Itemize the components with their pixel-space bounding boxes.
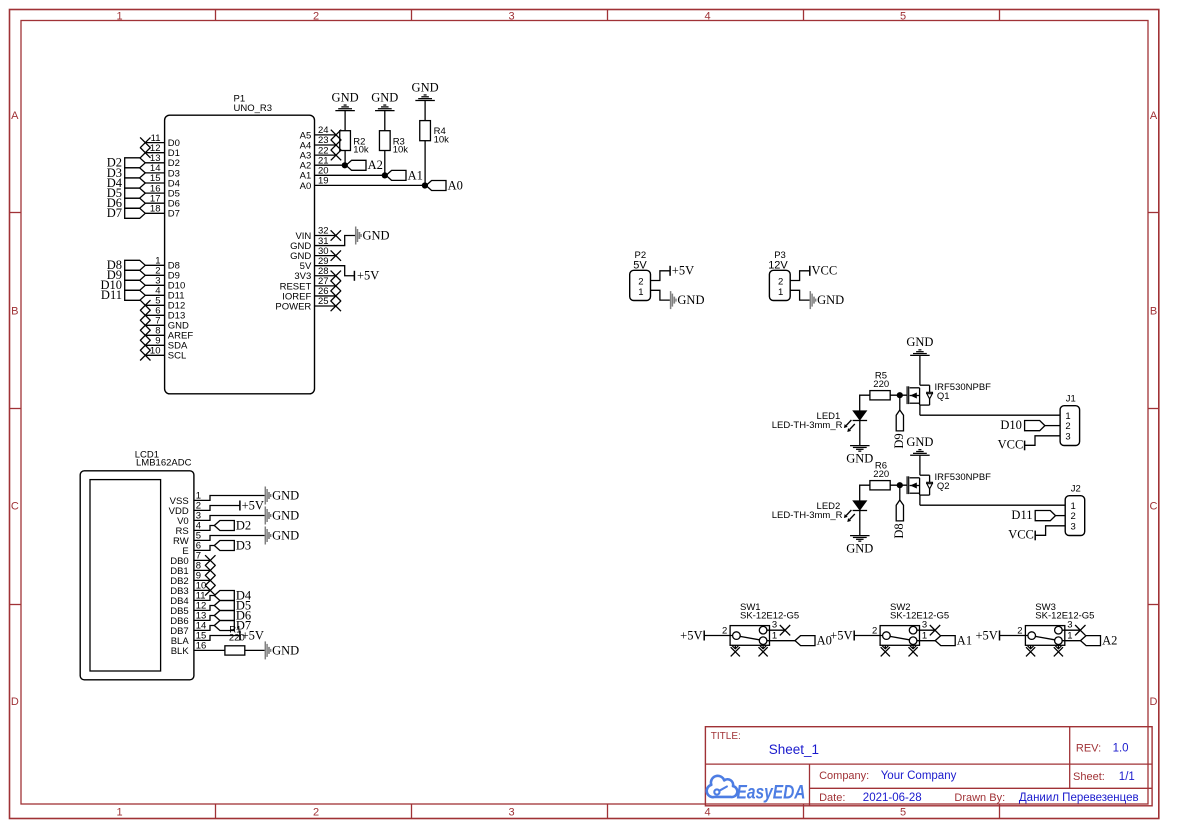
junction at A1 — [382, 172, 388, 178]
svg-text:LED-TH-3mm_R: LED-TH-3mm_R — [772, 420, 843, 431]
wire P3 pin2 — [790, 271, 810, 281]
ground GND at P3 pin1 — [810, 291, 844, 309]
svg-text:A0: A0 — [448, 178, 463, 192]
P1 pin 25 POWER — [275, 296, 341, 312]
svg-text:GND: GND — [363, 229, 390, 243]
wire LED2 to ground — [859, 511, 861, 536]
wire SW1 pin1 to flag A0 — [767, 640, 795, 642]
wire SW2 pin1 to flag A1 — [917, 640, 935, 642]
wire P2 pin1 — [651, 290, 670, 300]
svg-text:+5V: +5V — [357, 269, 379, 283]
LED LED2 LED-TH-3mm_R — [772, 501, 867, 522]
wire R4 bottom — [424, 141, 426, 186]
wire LCD1 pin4 RS to flag D2 — [194, 526, 214, 531]
svg-text:3: 3 — [772, 620, 777, 631]
P1 pin 15 D4 — [145, 173, 180, 189]
svg-text:GND: GND — [817, 293, 844, 307]
wire SW2 pin3 no connect — [917, 625, 940, 635]
wire flag D10 to J1 pin2 — [1045, 425, 1060, 427]
switch SW2 SK-12E12-G5 — [872, 602, 949, 645]
svg-text:VCC: VCC — [998, 438, 1024, 452]
svg-text:2: 2 — [313, 10, 319, 22]
svg-text:GND: GND — [677, 293, 704, 307]
P1 pin 20 A1 — [300, 166, 385, 182]
ground GND below LED1 — [846, 446, 873, 466]
power +5V at SW1 pin2 — [680, 628, 704, 642]
svg-text:D8: D8 — [892, 523, 906, 538]
svg-text:UNO_R3: UNO_R3 — [234, 103, 273, 114]
LCD1 pin 4 RS — [175, 521, 201, 537]
svg-text:220: 220 — [873, 469, 889, 480]
LCD1 pin 16 BLK — [171, 641, 207, 657]
wire LCD1 pin3 V0 to GND — [194, 516, 265, 521]
P1 pin 10 SCL — [140, 346, 186, 362]
wire LCD1 pin15 BLA to +5V — [194, 636, 240, 641]
svg-text:3: 3 — [922, 620, 927, 631]
LCD1 pin 13 DB6 — [170, 611, 206, 627]
svg-text:A: A — [11, 110, 19, 122]
wire +5V to SW1 pin2 — [704, 635, 732, 637]
svg-text:D7: D7 — [168, 209, 180, 220]
P1 pin 3 D10 — [145, 276, 185, 292]
svg-text:D: D — [1150, 696, 1158, 708]
wire R2 top to ground — [344, 111, 346, 131]
svg-text:REV:: REV: — [1076, 743, 1101, 755]
svg-text:1: 1 — [116, 807, 122, 819]
wire LCD1 pin16 BLK to R1 — [194, 649, 225, 651]
wire P1 pin31 to GND — [315, 236, 356, 246]
P1 pin 6 D13 — [140, 306, 185, 322]
resistor R1 220 labels — [229, 624, 245, 643]
net flag D4 — [107, 176, 146, 190]
svg-text:GND: GND — [371, 90, 398, 104]
ground GND above Q2 — [906, 435, 933, 455]
P1 pin 12 D1 — [140, 143, 180, 159]
svg-text:3: 3 — [508, 10, 514, 22]
net flag D9 — [892, 410, 906, 449]
wire LCD1 pin1 VSS to GND — [194, 496, 265, 501]
P1 pin 31 GND — [290, 236, 328, 252]
wire R6 to Q2 gate — [890, 484, 907, 486]
svg-text:Q1: Q1 — [937, 391, 950, 402]
LCD1 pin 11 DB4 — [170, 591, 205, 607]
svg-text:4: 4 — [704, 10, 710, 22]
svg-text:220: 220 — [873, 379, 889, 390]
power +5V at SW3 pin2 — [975, 628, 999, 642]
LCD LCD1 LMB162ADC body — [80, 449, 194, 680]
connector J2 — [1065, 483, 1085, 535]
LCD1 pin 10 DB3 — [170, 581, 206, 597]
wire LCD1 pin 12 to flag D5 — [194, 606, 214, 611]
net flag D8 — [892, 500, 906, 539]
net flag D3 — [107, 166, 146, 180]
ground GND at P1 pin31 — [356, 227, 390, 245]
svg-text:Company:: Company: — [819, 770, 869, 782]
wire P3 pin1 — [790, 290, 809, 300]
power VCC at J2 pin3 — [1008, 528, 1035, 542]
svg-text:+5V: +5V — [680, 628, 702, 642]
title block — [705, 727, 1152, 806]
svg-text:C: C — [11, 501, 19, 513]
connector J1 — [1060, 393, 1080, 445]
wire P2 pin2 — [651, 271, 671, 281]
svg-text:VCC: VCC — [812, 264, 838, 278]
P1 pin 28 3V3 — [294, 266, 341, 282]
power VCC at P3 pin2 — [810, 264, 837, 278]
svg-text:J2: J2 — [1071, 483, 1081, 494]
resistor R4 10k — [420, 121, 449, 146]
wire R2 bottom — [344, 151, 346, 166]
wire SW3 pin1 to flag A2 — [1062, 640, 1080, 642]
wire flag D11 to J2 pin2 — [1056, 515, 1066, 517]
svg-text:EasyEDA: EasyEDA — [737, 782, 806, 803]
P1 pin 2 D9 — [145, 266, 180, 282]
ground GND at LCD1 pin5 — [265, 527, 299, 545]
net flag A1 — [386, 168, 423, 182]
wire junction to flag D8 — [899, 485, 901, 500]
svg-text:LED-TH-3mm_R: LED-TH-3mm_R — [772, 510, 843, 521]
P1 pin 7 GND — [140, 316, 189, 332]
svg-text:+5V: +5V — [830, 628, 852, 642]
svg-text:3: 3 — [1067, 620, 1072, 631]
svg-text:D3: D3 — [236, 538, 251, 552]
switch SW3 SK-12E12-G5 — [1017, 602, 1094, 645]
P1 pin 17 D6 — [145, 193, 180, 209]
power +5V at P1 pin29 — [354, 269, 379, 283]
svg-text:10k: 10k — [393, 145, 409, 156]
svg-text:5: 5 — [900, 10, 906, 22]
P1 pin 16 D5 — [145, 183, 180, 199]
svg-text:SK-12E12-G5: SK-12E12-G5 — [1035, 611, 1094, 622]
svg-text:2: 2 — [313, 807, 319, 819]
P1 pin 24 A5 — [300, 125, 342, 141]
LCD1 pin 8 DB1 — [170, 561, 201, 577]
wire R4 top to ground — [424, 101, 426, 121]
svg-text:1: 1 — [772, 630, 777, 641]
svg-text:5: 5 — [900, 807, 906, 819]
wire LED1 to ground — [859, 421, 861, 446]
net flag D2 — [214, 518, 251, 532]
svg-text:1: 1 — [922, 630, 927, 641]
resistor R1 body — [225, 646, 245, 655]
SW2 mounting pins no connect — [881, 645, 918, 656]
svg-text:A1: A1 — [408, 168, 423, 182]
SW3 mounting pins no connect — [1026, 645, 1063, 656]
svg-text:1.0: 1.0 — [1113, 743, 1129, 755]
net flag A2 — [346, 158, 383, 172]
P1 pin 1 D8 — [145, 256, 180, 272]
svg-text:A2: A2 — [368, 158, 383, 172]
svg-text:GND: GND — [272, 529, 299, 543]
net flag D7 — [214, 618, 251, 632]
wire LCD1 pin 9 no connect — [194, 575, 216, 585]
svg-text:4: 4 — [704, 807, 710, 819]
EasyEDA logo — [707, 776, 806, 804]
net flag A2 — [1081, 634, 1118, 648]
wire LCD1 pin 11 to flag D4 — [194, 596, 214, 601]
ground GND above R2 — [332, 90, 359, 110]
wire R5 to Q1 gate — [890, 394, 907, 396]
svg-text:10k: 10k — [353, 145, 369, 156]
P1 pin 23 A4 — [300, 135, 342, 151]
svg-text:D: D — [11, 696, 19, 708]
ground GND at LCD1 pin3 — [265, 507, 299, 525]
P1 pin 29 5V — [300, 256, 329, 272]
wire GND to Q1 drain — [919, 355, 921, 385]
connector P1 UNO_R3 body — [165, 94, 315, 394]
svg-text:B: B — [11, 305, 18, 317]
net flag D5 — [107, 186, 146, 200]
power VCC at J1 pin3 — [998, 438, 1025, 452]
ground GND at P2 pin1 — [671, 291, 705, 309]
svg-text:3: 3 — [1065, 431, 1070, 442]
svg-text:GND: GND — [846, 542, 873, 556]
power +5V at P2 pin2 — [670, 264, 694, 278]
svg-text:A1: A1 — [957, 634, 972, 648]
net flag D3 — [214, 538, 251, 552]
LCD1 pin 1 VSS — [170, 491, 201, 507]
ground GND at R1 — [265, 641, 299, 659]
svg-text:C: C — [1150, 501, 1158, 513]
svg-text:D9: D9 — [892, 433, 906, 448]
svg-text:D11: D11 — [101, 288, 122, 302]
wire Q2 source to J2 pin1 — [920, 504, 1065, 506]
wire LCD1 pin5 RW to GND — [194, 536, 265, 541]
P1 pin 11 D0 — [140, 133, 180, 149]
svg-text:D11: D11 — [1011, 508, 1032, 522]
svg-text:18: 18 — [150, 204, 161, 215]
svg-text:SCL: SCL — [168, 351, 186, 362]
svg-text:1: 1 — [638, 287, 643, 298]
P1 pin 5 D12 — [140, 296, 185, 312]
P1 pin 9 SDA — [140, 336, 188, 352]
svg-text:GND: GND — [332, 90, 359, 104]
svg-text:5V: 5V — [633, 259, 647, 271]
svg-text:B: B — [1150, 305, 1157, 317]
net flag A0 — [426, 178, 463, 192]
wire R1 to GND — [245, 649, 265, 651]
connector P3 12V — [768, 250, 790, 300]
wire VCC to J1 pin3 — [1025, 436, 1061, 446]
svg-text:Q2: Q2 — [937, 481, 950, 492]
wire LCD1 pin 10 no connect — [194, 585, 216, 595]
svg-text:A: A — [1150, 110, 1158, 122]
net flag D4 — [214, 588, 252, 602]
LCD1 pin 3 V0 — [177, 511, 201, 527]
P1 pin 26 IOREF — [282, 286, 341, 302]
svg-text:GND: GND — [906, 435, 933, 449]
svg-text:1: 1 — [116, 10, 122, 22]
svg-text:Sheet_1: Sheet_1 — [769, 742, 819, 757]
P1 pin 21 A2 — [300, 155, 345, 171]
wire VCC to J2 pin3 — [1035, 526, 1065, 536]
wire LCD1 pin 14 to flag D7 — [194, 626, 214, 631]
LCD1 pin 15 BLA — [171, 631, 207, 647]
wire P1 pin29 to +5V — [315, 266, 355, 276]
net flag D9 — [107, 268, 146, 282]
svg-text:SK-12E12-G5: SK-12E12-G5 — [740, 611, 799, 622]
junction at Q2 gate — [897, 482, 903, 488]
svg-text:1: 1 — [1067, 630, 1072, 641]
P1 pin 22 A3 — [300, 145, 342, 161]
wire LCD1 pin 13 to flag D6 — [194, 616, 214, 621]
svg-text:+5V: +5V — [242, 628, 264, 642]
svg-text:12V: 12V — [768, 259, 788, 271]
svg-text:A2: A2 — [1102, 634, 1117, 648]
junction at A2 — [342, 162, 348, 168]
svg-text:GND: GND — [846, 452, 873, 466]
resistor R5 220 — [870, 371, 890, 400]
svg-text:Даниил Перевезенцев: Даниил Перевезенцев — [1019, 792, 1139, 804]
LCD1 pin 6 E — [182, 541, 201, 557]
ground GND above R4 — [412, 80, 439, 100]
svg-text:3: 3 — [1071, 521, 1076, 532]
svg-text:19: 19 — [318, 176, 329, 187]
wire R3 bottom — [384, 151, 386, 176]
P1 pin 19 A0 — [300, 176, 425, 192]
svg-text:Drawn By:: Drawn By: — [954, 792, 1005, 804]
svg-text:+5V: +5V — [672, 264, 694, 278]
wire +5V to SW2 pin2 — [854, 635, 882, 637]
LCD1 pin 7 DB0 — [170, 551, 201, 567]
net flag D10 — [100, 278, 145, 292]
power +5V at SW2 pin2 — [830, 628, 854, 642]
wire LCD1 pin 7 no connect — [194, 555, 216, 565]
P1 pin 4 D11 — [145, 286, 185, 302]
net flag A0 — [795, 634, 832, 648]
wire GND to Q2 drain — [919, 455, 921, 475]
net flag D8 — [107, 258, 146, 272]
svg-text:GND: GND — [272, 644, 299, 658]
ground GND at LCD1 pin1 — [265, 487, 299, 505]
LED LED1 LED-TH-3mm_R — [772, 411, 867, 432]
svg-text:LMB162ADC: LMB162ADC — [136, 458, 192, 469]
P1 pin 18 D7 — [145, 204, 180, 220]
svg-text:J1: J1 — [1066, 393, 1076, 404]
svg-text:GND: GND — [272, 509, 299, 523]
svg-text:Sheet:: Sheet: — [1073, 771, 1105, 783]
wire junction to flag D9 — [899, 395, 901, 410]
ground GND below LED2 — [846, 536, 873, 556]
P1 pin 13 D2 — [145, 153, 180, 169]
P1 pin 8 AREF — [140, 326, 193, 342]
svg-text:D7: D7 — [107, 206, 122, 220]
net flag D11 — [1011, 508, 1055, 522]
junction at Q1 gate — [897, 392, 903, 398]
svg-text:Your Company: Your Company — [881, 770, 957, 782]
P1 pin 30 GND — [290, 246, 341, 262]
net flag D6 — [214, 608, 251, 622]
SW1 mounting pins no connect — [731, 645, 768, 656]
switch SW1 SK-12E12-G5 — [722, 602, 799, 645]
svg-text:Date:: Date: — [819, 792, 845, 804]
connector P2 5V — [630, 250, 651, 300]
svg-text:POWER: POWER — [275, 301, 311, 312]
svg-text:10k: 10k — [434, 135, 450, 146]
wire +5V to SW3 pin2 — [1000, 635, 1028, 637]
resistor R6 220 — [870, 461, 890, 490]
svg-text:A0: A0 — [300, 181, 312, 192]
wire R6 to LED2 — [860, 485, 870, 501]
LCD1 pin 5 RW — [173, 531, 201, 547]
power +5V at LCD1 pin15 — [240, 628, 264, 642]
wire LCD1 pin2 VDD to +5V — [194, 506, 240, 511]
wire LCD1 pin 8 no connect — [194, 565, 216, 575]
power +5V at LCD1 pin2 — [240, 498, 264, 512]
ground GND above Q1 — [906, 335, 933, 355]
net flag A1 — [935, 634, 972, 648]
svg-text:GND: GND — [412, 80, 439, 94]
svg-text:VCC: VCC — [1008, 528, 1034, 542]
junction at A0 — [422, 182, 428, 188]
net flag D6 — [107, 196, 146, 210]
transistor Q1 IRF530NPBF — [907, 382, 991, 415]
transistor Q2 IRF530NPBF — [907, 472, 991, 505]
wire R3 top to ground — [384, 111, 386, 131]
svg-text:D2: D2 — [236, 518, 251, 532]
svg-text:3: 3 — [508, 807, 514, 819]
wire Q1 source to J1 pin1 — [920, 414, 1060, 416]
wire SW3 pin3 no connect — [1062, 625, 1085, 635]
svg-text:1/1: 1/1 — [1119, 771, 1135, 783]
P1 pin 32 VIN — [295, 226, 341, 242]
wire LCD1 pin6 E to flag D3 — [194, 546, 214, 551]
net flag D10 — [1000, 418, 1045, 432]
wire R5 to LED1 — [860, 395, 870, 411]
net flag D11 — [101, 288, 145, 302]
LCD1 pin 9 DB2 — [170, 571, 201, 587]
svg-text:D10: D10 — [1000, 418, 1022, 432]
net flag D2 — [107, 156, 146, 170]
svg-text:10: 10 — [150, 346, 161, 357]
svg-text:1: 1 — [778, 287, 783, 298]
svg-text:BLK: BLK — [171, 646, 190, 657]
svg-text:+5V: +5V — [242, 498, 264, 512]
net flag D7 — [107, 206, 146, 220]
net flag D5 — [214, 598, 251, 612]
P1 pin 27 RESET — [280, 276, 341, 292]
ground GND above R3 — [371, 90, 398, 110]
wire SW1 pin3 no connect — [767, 625, 790, 635]
svg-text:+5V: +5V — [975, 628, 997, 642]
LCD1 pin 2 VDD — [169, 501, 201, 517]
resistor R3 10k — [379, 131, 408, 156]
LCD1 pin 12 DB5 — [170, 601, 206, 617]
P1 pin 14 D3 — [145, 163, 180, 179]
svg-text:2021-06-28: 2021-06-28 — [863, 792, 922, 804]
svg-text:GND: GND — [906, 335, 933, 349]
svg-text:GND: GND — [272, 489, 299, 503]
LCD1 pin 14 DB7 — [170, 621, 206, 637]
svg-text:TITLE:: TITLE: — [711, 731, 741, 742]
svg-text:SK-12E12-G5: SK-12E12-G5 — [890, 611, 949, 622]
resistor R2 10k — [340, 131, 369, 156]
